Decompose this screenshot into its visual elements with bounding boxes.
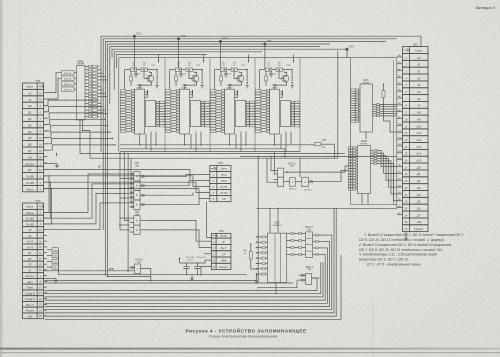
resistor R1 bbox=[130, 63, 137, 72]
memory unit 4 bbox=[0, 0, 1, 1]
wire feeders DD12 bbox=[240, 152, 397, 283]
wires DD11.1 outputs to loop risers bbox=[313, 234, 332, 255]
resistor R1a vertical bbox=[130, 71, 133, 86]
IC DD6a right pin comb bbox=[291, 101, 300, 127]
wire row y148.8 bbox=[120, 149, 285, 158]
IC DD3 upper right pins bbox=[190, 90, 193, 97]
wire drop KT5 line into block bbox=[346, 49, 348, 58]
wires X51 control rows to X54 bbox=[44, 169, 210, 198]
capacitors C11-C14 bbox=[180, 257, 198, 275]
power feed arrow unit4 bbox=[290, 70, 294, 89]
IC DD12.1 gate bbox=[278, 164, 297, 187]
IC DD7 input stubs bbox=[130, 173, 134, 208]
wire unit 2 resistor rail bbox=[170, 69, 203, 89]
IC DD8 gate column bbox=[130, 211, 145, 235]
IC DD10 bottom stubs bbox=[362, 194, 368, 205]
wire feeders to gate columns bbox=[119, 152, 131, 271]
wires into X55 power rows bbox=[197, 260, 212, 275]
wire X52 corner bundle bbox=[59, 250, 247, 275]
wire bus X51 data rows fan up to vertical bus bbox=[44, 99, 116, 150]
wire DD1 bottom to mid bus bbox=[80, 120, 345, 153]
resistor R3a vertical bbox=[175, 71, 178, 86]
wire bottom rails y280 y283 bbox=[45, 280, 294, 284]
wire outermost bottom loop bbox=[45, 255, 342, 319]
memory unit 3 bbox=[0, 0, 1, 1]
IC DD6 label bbox=[271, 85, 278, 90]
IC DD3 left pin comb bbox=[165, 90, 179, 133]
power +5V arrow at X51 bbox=[56, 153, 58, 157]
IC DD13.1 gate bbox=[302, 177, 313, 191]
IC DD2a right pin comb bbox=[156, 101, 165, 127]
IC DD10 bbox=[358, 140, 371, 194]
wire unit 4 resistor rail bbox=[260, 69, 293, 89]
IC DD10 left pin comb bbox=[348, 147, 357, 190]
resistor R2 bbox=[141, 63, 148, 72]
wire drops from control points into memory units bbox=[134, 36, 265, 69]
control point КТ4 bbox=[263, 39, 272, 45]
capacitor C2 bbox=[179, 71, 187, 77]
connector Х55 bbox=[211, 229, 231, 269]
IC DD2 body bbox=[135, 89, 145, 134]
unit divider lines bbox=[165, 58, 300, 152]
transistor VT2 bbox=[185, 65, 201, 89]
wire DD4 bottom to bus rail bbox=[275, 283, 276, 295]
wire unit 3 resistor rail bbox=[215, 69, 248, 89]
wire DD9 outputs to edge bbox=[380, 104, 397, 116]
connector Х51 bbox=[23, 79, 45, 192]
power +5V arrow capacitor group bbox=[179, 258, 181, 262]
wire drop from line1 to connector X53 header bbox=[410, 36, 422, 46]
IC DD9 left pin comb bbox=[351, 89, 360, 122]
wire DD11.2 output into bottom rail bbox=[312, 278, 318, 291]
IC DD3 label bbox=[181, 85, 188, 90]
wire DD4 top feeds bbox=[269, 208, 278, 234]
power +5V arrow unit 3 bbox=[248, 59, 250, 63]
wire stubs X51 rows bbox=[44, 93, 48, 189]
IC DD6 upper right pins bbox=[280, 90, 283, 97]
wires unit 3 chip bottoms to bus bbox=[230, 132, 247, 152]
resistor R6 bbox=[231, 63, 238, 72]
resistor R5a vertical bbox=[220, 71, 223, 86]
wires unit 1 chip bottoms to bus bbox=[140, 132, 157, 152]
IC DD12.2 gate bbox=[289, 178, 302, 191]
IC DD1 address register bbox=[77, 59, 86, 120]
IC DD9 right pins bbox=[373, 103, 380, 116]
capacitor C3 bbox=[224, 71, 232, 77]
ground at X51 Корпус row bbox=[44, 163, 59, 167]
ground at X52 Корпус row bbox=[44, 278, 58, 282]
connector Х54 bbox=[210, 161, 231, 201]
wire mid bus upper bbox=[120, 151, 300, 153]
DD1 right pin comb bbox=[85, 65, 107, 118]
capacitor C4 bbox=[269, 71, 277, 77]
IC DD5a second chip body bbox=[236, 101, 246, 127]
wire bundle X51 tail to X52 head bbox=[44, 175, 53, 224]
power +5V arrow unit 2 bbox=[203, 59, 205, 63]
IC DD9 bottom stub bbox=[365, 132, 367, 139]
resistor R7 bbox=[265, 63, 272, 72]
ground below X53 bbox=[404, 232, 408, 241]
note text block bbox=[358, 233, 464, 266]
memory array enclosure box bbox=[119, 58, 397, 209]
wire row y144.8 with junctions bbox=[120, 144, 315, 146]
IC DD2 left pin comb bbox=[120, 90, 134, 133]
IC DD4 left pin comb bbox=[256, 236, 268, 275]
connector Х53 bbox=[403, 42, 429, 231]
IC DD12.1 pins bbox=[274, 171, 290, 183]
IC DD5 body bbox=[225, 89, 235, 134]
ground below DD4 on rail bbox=[255, 274, 259, 283]
resistor R15 pullup bbox=[380, 84, 386, 122]
power +5V arrow unit 4 bbox=[293, 59, 295, 63]
IC DD7 output stubs bbox=[140, 175, 144, 205]
memory unit 1 bbox=[0, 0, 1, 1]
IC DD3 body bbox=[180, 89, 190, 134]
wire labels from X52 control rows bbox=[47, 248, 247, 275]
wires DD8 outputs to X55 bbox=[144, 220, 211, 253]
DD1 bottom pin wire bbox=[82, 120, 90, 158]
IC DD2a second chip body bbox=[146, 101, 156, 127]
control point КТ1 bbox=[133, 31, 142, 37]
power feed arrow unit2 bbox=[200, 70, 204, 89]
transistor VT3 bbox=[230, 65, 246, 89]
wire stubs and net labels into connector X53 bbox=[397, 54, 403, 215]
IC DD10 right pins bbox=[371, 150, 378, 165]
IC DD11.1 gate bbox=[305, 227, 313, 257]
wires DD11.2 inputs bbox=[258, 274, 306, 288]
wire DD12.1 output run to DD10 bbox=[287, 166, 348, 172]
resistor R5 bbox=[220, 63, 227, 72]
sub-box bottom edge wire bbox=[90, 157, 338, 159]
IC DD4 right pins to DD11.1 bbox=[287, 233, 306, 256]
wire DD13.1 output run bbox=[312, 171, 348, 182]
wire unit 1 resistor rail bbox=[125, 69, 158, 89]
connector Х52 bbox=[23, 199, 45, 319]
IC DD4 bus transceiver bbox=[268, 221, 287, 282]
transistor VT1 bbox=[140, 65, 156, 89]
transistor VT4 bbox=[275, 65, 291, 89]
wire long verticals from DD1 bus to bottom bbox=[105, 274, 151, 277]
resistor R8 bbox=[276, 63, 283, 72]
wire bus - top horizontal control lines with left corner drops bbox=[101, 36, 421, 276]
power +5V arrow unit 1 bbox=[158, 59, 160, 63]
control point КТ2 bbox=[177, 34, 186, 40]
IC DD5a right pin comb bbox=[246, 101, 255, 127]
resistor R4 bbox=[186, 63, 193, 72]
resistor R7a vertical bbox=[265, 71, 268, 86]
capacitors C15-C18 bbox=[194, 257, 206, 275]
IC DD11.2 gate bbox=[306, 267, 320, 285]
wire +5V feeder drops bbox=[159, 54, 294, 59]
resistor R14 on line bbox=[315, 139, 335, 158]
control point КТ3 bbox=[219, 37, 228, 43]
resistor R16 pullup bbox=[243, 243, 257, 270]
wires X52 upper rows to gate inputs bbox=[44, 174, 121, 230]
wire X54 to X55 link bbox=[207, 202, 212, 238]
IC DD7 gate column bbox=[134, 162, 140, 209]
scan artifact lines at bottom bbox=[0, 348, 500, 350]
wires unit 2 chip bottoms to bus bbox=[185, 132, 202, 152]
IC DD2 upper right pins bbox=[145, 90, 148, 97]
resistor R3 bbox=[175, 63, 182, 72]
IC DD2 label bbox=[136, 85, 143, 90]
IC DD5 label bbox=[226, 85, 233, 90]
sub-box right edge bbox=[337, 51, 339, 159]
IC DD3a right pin comb bbox=[201, 101, 210, 127]
power feed arrow unit1 bbox=[155, 70, 159, 89]
control point КТ5 bbox=[346, 44, 355, 50]
IC DD6 body bbox=[270, 89, 280, 134]
IC DD3a second chip body bbox=[191, 101, 201, 127]
IC DD13.3 gate bbox=[135, 260, 144, 274]
wire stubs X52 rows bbox=[44, 212, 48, 316]
capacitor C1 bbox=[134, 71, 142, 77]
IC DD6a second chip body bbox=[281, 101, 291, 127]
IC DD5 upper right pins bbox=[235, 90, 238, 97]
wire inner vertical bus near X53 bbox=[393, 60, 395, 205]
wire bottom staircase bundle to X52 bbox=[45, 208, 337, 316]
IC DD9 bbox=[360, 79, 373, 132]
ground capacitor group bbox=[186, 274, 198, 281]
pin labels left of DD1 bbox=[62, 71, 77, 92]
memory unit 2 bbox=[0, 0, 1, 1]
IC DD5 left pin comb bbox=[210, 90, 224, 133]
wires DD7 outputs to X54 bbox=[144, 174, 210, 204]
power feed arrow unit3 bbox=[245, 70, 249, 89]
wires unit 4 chip bottoms to bus bbox=[275, 132, 292, 152]
IC DD6 left pin comb bbox=[255, 90, 269, 133]
wires DD13.3 bbox=[44, 267, 151, 281]
wire X51 A2/A1 to DD1 input labels bbox=[48, 73, 62, 99]
wire bundle DD10 to X53 data rows bbox=[377, 151, 397, 201]
